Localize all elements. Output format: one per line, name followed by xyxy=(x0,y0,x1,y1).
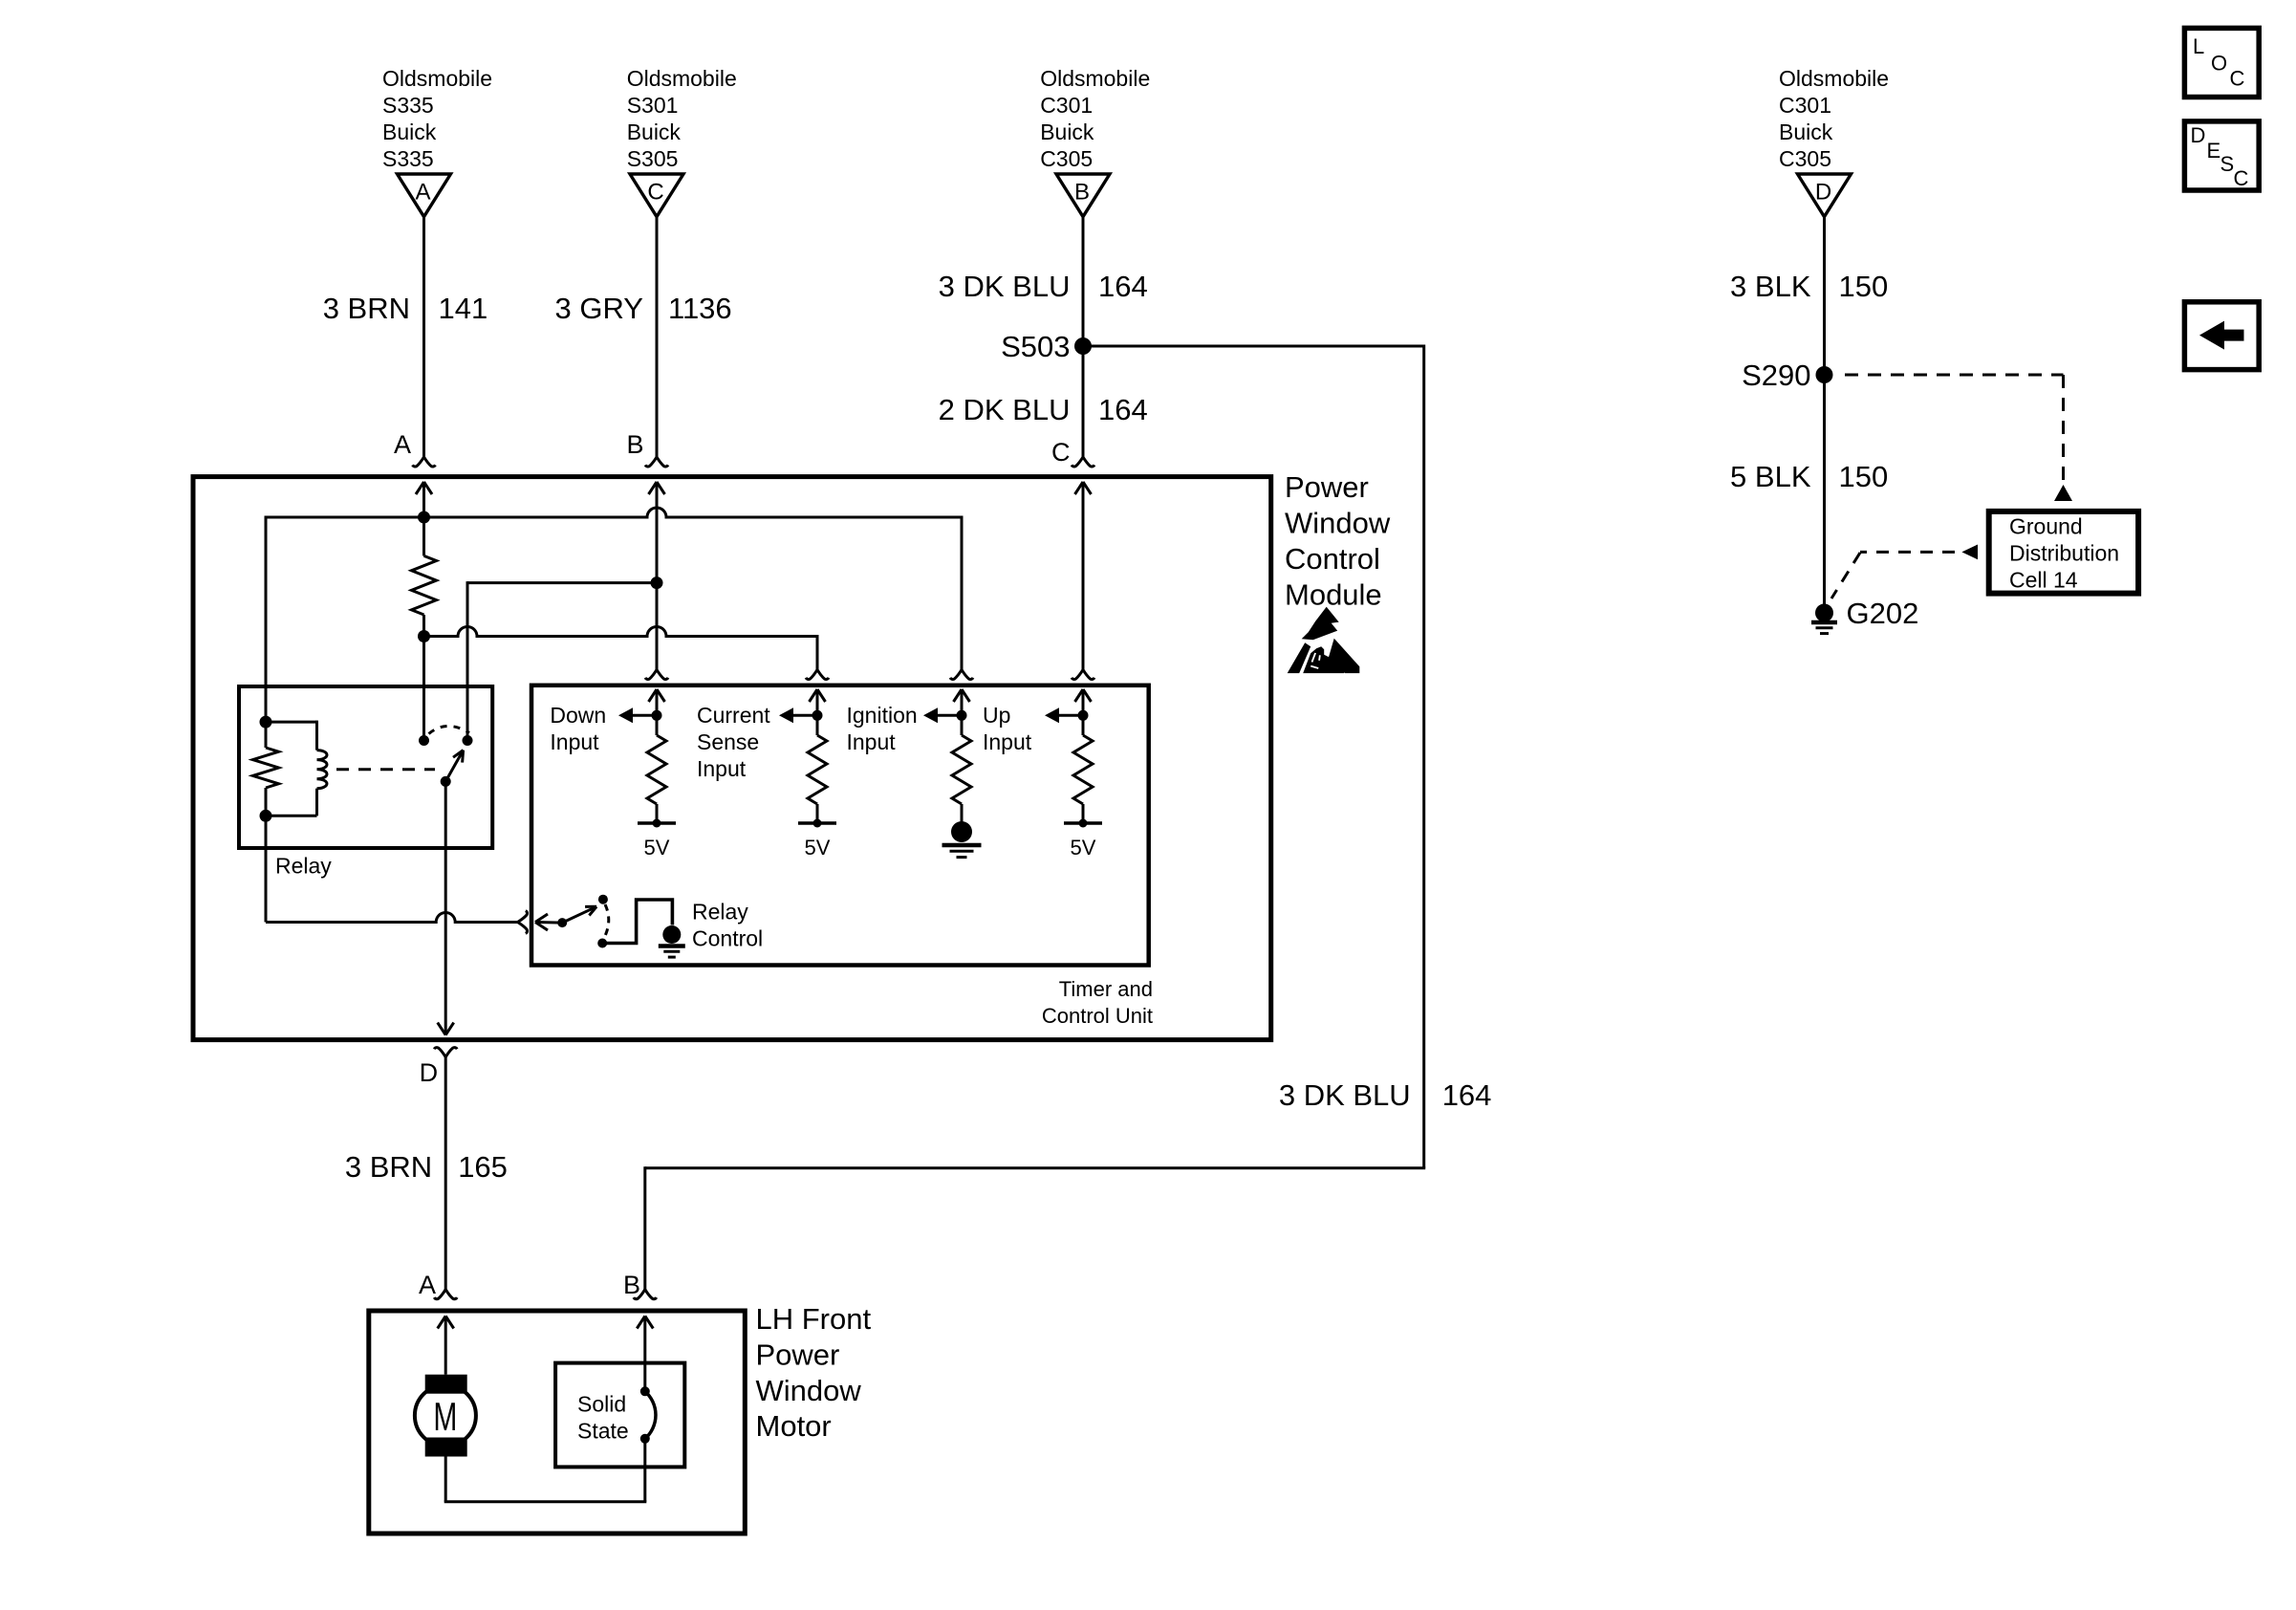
relay node coil top xyxy=(260,716,272,729)
svg-text:5V: 5V xyxy=(644,836,670,859)
module pin B male terminal arrow xyxy=(656,482,659,670)
motor M circle xyxy=(415,1385,476,1447)
dashed wire S290 to ground distribution xyxy=(1845,374,2064,377)
svg-text:C: C xyxy=(2230,67,2245,91)
wire node A lower to relay left contact xyxy=(422,637,425,741)
svg-text:C305: C305 xyxy=(1040,146,1093,171)
svg-text:S301: S301 xyxy=(627,93,679,118)
relay switch common pivot xyxy=(441,776,451,787)
svg-text:Relay: Relay xyxy=(275,853,332,878)
ground G202 symbol xyxy=(1811,620,1837,625)
relay coil to ground wire xyxy=(265,816,268,922)
svg-text:C: C xyxy=(1051,438,1071,467)
svg-text:D: D xyxy=(420,1058,439,1087)
svg-text:Window: Window xyxy=(756,1374,862,1407)
off-page connector triangle B xyxy=(1056,174,1110,217)
relay control lower contact dot xyxy=(597,939,607,948)
ignition input ground symbol xyxy=(942,843,982,848)
wire 3 BRN 141 (circuit A upper) xyxy=(422,217,425,457)
module pin C male terminal arrow xyxy=(1082,482,1085,670)
svg-text:Oldsmobile: Oldsmobile xyxy=(1779,66,1889,91)
relay suppression resistor xyxy=(253,748,279,788)
svg-text:Motor: Motor xyxy=(756,1409,832,1443)
svg-text:Oldsmobile: Oldsmobile xyxy=(1040,66,1150,91)
module pin C female connector xyxy=(1072,457,1083,467)
svg-text:G202: G202 xyxy=(1847,597,1919,630)
junction dot node A lower xyxy=(418,630,430,642)
svg-text:S290: S290 xyxy=(1742,359,1810,392)
timer relay-control female connector xyxy=(518,911,528,923)
svg-text:3 BRN: 3 BRN xyxy=(345,1150,432,1184)
timer pin up input xyxy=(1072,670,1083,680)
junction dot node A upper xyxy=(418,511,430,524)
junction dot node B xyxy=(651,577,663,589)
relay control ground dot xyxy=(662,925,681,944)
svg-text:Ground: Ground xyxy=(2009,513,2083,538)
module pin D male terminal arrow xyxy=(438,1023,446,1035)
relay control pivot dot xyxy=(557,918,567,927)
svg-text:Distribution: Distribution xyxy=(2009,540,2119,565)
svg-text:164: 164 xyxy=(1098,270,1148,303)
module pin A male terminal arrow xyxy=(422,482,425,517)
relay coil left wire xyxy=(265,686,268,722)
motor pin B male terminal arrow xyxy=(643,1316,646,1392)
svg-text:S503: S503 xyxy=(1001,330,1070,363)
relay switch fixed contact left (from node A) xyxy=(419,735,429,746)
svg-text:D: D xyxy=(2191,123,2206,147)
svg-text:3 DK BLU: 3 DK BLU xyxy=(1279,1078,1411,1112)
svg-text:Control Unit: Control Unit xyxy=(1042,1004,1153,1028)
motor pin A male terminal arrow xyxy=(444,1316,447,1375)
svg-text:Oldsmobile: Oldsmobile xyxy=(627,66,737,91)
svg-text:Ignition: Ignition xyxy=(847,703,918,728)
svg-text:M: M xyxy=(433,1394,457,1439)
svg-text:Input: Input xyxy=(847,729,897,754)
svg-text:5V: 5V xyxy=(1071,836,1096,859)
svg-text:164: 164 xyxy=(1442,1078,1492,1112)
timer and control unit box xyxy=(531,685,1149,966)
svg-text:Sense: Sense xyxy=(697,729,759,754)
svg-text:Input: Input xyxy=(697,756,747,781)
power window control module box xyxy=(193,477,1271,1040)
svg-text:Power: Power xyxy=(1285,470,1369,504)
module pin D female connector xyxy=(434,1048,445,1057)
wire ignition feed bus (node A to ignition input) xyxy=(266,508,962,517)
timer pin ignition input xyxy=(950,670,962,680)
up input 5V rail xyxy=(1064,821,1102,825)
svg-text:Cell 14: Cell 14 xyxy=(2009,567,2078,592)
svg-text:C301: C301 xyxy=(1779,93,1831,118)
relay coil top link xyxy=(266,721,317,724)
svg-text:5 BLK: 5 BLK xyxy=(1730,460,1811,493)
svg-text:LH Front: LH Front xyxy=(756,1302,872,1336)
LH front power window motor box xyxy=(369,1311,746,1534)
svg-text:C: C xyxy=(647,180,663,206)
LOC legend box xyxy=(2184,28,2259,97)
off-page connector triangle A xyxy=(398,174,451,217)
motor pin B female connector xyxy=(634,1290,645,1299)
svg-text:Module: Module xyxy=(1285,578,1382,612)
relay actuation dashed link xyxy=(336,768,435,771)
svg-text:State: State xyxy=(577,1418,629,1443)
module pin B female connector xyxy=(645,457,657,467)
arrowhead into ground distribution (up) xyxy=(2054,485,2072,501)
svg-text:150: 150 xyxy=(1839,270,1889,303)
down input 5V rail xyxy=(638,821,676,825)
current sense 5V rail xyxy=(798,821,836,825)
svg-text:Up: Up xyxy=(983,703,1010,728)
wire relay coil to timer relay-control pin xyxy=(266,913,518,923)
solid state upper contact dot xyxy=(640,1386,650,1396)
svg-text:3 DK BLU: 3 DK BLU xyxy=(939,270,1071,303)
svg-text:Buick: Buick xyxy=(382,120,437,144)
module pin A female connector xyxy=(413,457,424,467)
svg-text:1136: 1136 xyxy=(668,292,732,325)
ignition input ground dot xyxy=(961,804,964,824)
svg-text:3 GRY: 3 GRY xyxy=(555,292,643,325)
svg-text:Power: Power xyxy=(756,1338,840,1371)
svg-text:2 DK BLU: 2 DK BLU xyxy=(939,393,1071,426)
wire 3 BLK 150 xyxy=(1823,217,1826,375)
svg-text:Buick: Buick xyxy=(1040,120,1094,144)
arrowhead from ground distribution (left) xyxy=(1961,545,1978,560)
svg-text:S305: S305 xyxy=(627,146,679,171)
svg-text:165: 165 xyxy=(458,1150,508,1184)
off-page connector triangle C xyxy=(630,174,683,217)
ESD sensitive device symbol xyxy=(1288,607,1360,673)
svg-text:A: A xyxy=(419,1271,436,1299)
svg-text:Current: Current xyxy=(697,703,770,728)
relay coil xyxy=(317,751,327,789)
relay resistor bottom lead xyxy=(265,788,268,816)
wire relay common to pin D xyxy=(444,781,447,1034)
ground G202 dot xyxy=(1815,604,1833,622)
wire 3 DK BLU 164 from S503 to LH motor B xyxy=(1091,345,1424,348)
svg-text:A: A xyxy=(394,430,411,459)
svg-text:C301: C301 xyxy=(1040,93,1093,118)
wire resistor to node A lower xyxy=(422,615,425,637)
svg-text:Control: Control xyxy=(692,925,763,950)
relay control ground symbol xyxy=(659,944,685,948)
svg-text:D: D xyxy=(1815,180,1831,206)
svg-text:S: S xyxy=(2220,152,2235,176)
DESC legend box xyxy=(2184,121,2259,190)
solid state switch arc xyxy=(645,1391,656,1439)
motor internal wire M to B xyxy=(444,1457,447,1502)
off-page connector triangle D xyxy=(1798,174,1852,217)
relay throw dashed arc xyxy=(429,726,470,733)
motor M brush block bottom xyxy=(425,1438,467,1457)
timer pin current sense input xyxy=(806,670,817,680)
svg-text:3 BLK: 3 BLK xyxy=(1730,270,1811,303)
motor pin A female connector xyxy=(434,1290,445,1299)
module pin B arrowhead xyxy=(649,482,658,494)
relay control throw dashed arc xyxy=(604,904,609,938)
splice S503 xyxy=(1074,337,1092,355)
back arrow legend box xyxy=(2184,302,2259,370)
svg-text:Timer and: Timer and xyxy=(1059,977,1153,1001)
resistor on wire A inside module xyxy=(412,555,437,615)
solid state box xyxy=(555,1363,684,1468)
relay coil bottom link xyxy=(315,789,318,816)
svg-text:L: L xyxy=(2193,34,2204,58)
wire 3 DK BLU 164 (above S503) xyxy=(1082,217,1085,346)
solid state lower contact dot xyxy=(640,1434,650,1444)
svg-text:141: 141 xyxy=(439,292,488,325)
ground distribution cell box xyxy=(1989,511,2138,594)
wire 3 GRY 1136 xyxy=(656,217,659,457)
svg-text:Solid: Solid xyxy=(577,1391,626,1416)
svg-text:150: 150 xyxy=(1839,460,1889,493)
svg-text:O: O xyxy=(2211,51,2227,75)
svg-text:Relay: Relay xyxy=(692,899,748,924)
svg-text:S335: S335 xyxy=(382,146,434,171)
dashed wire ground distribution to G202 xyxy=(1860,551,1955,554)
relay node coil bottom xyxy=(260,810,272,822)
relay control staple wire xyxy=(602,900,672,944)
svg-text:B: B xyxy=(1074,180,1090,206)
motor M brush block top xyxy=(425,1375,467,1394)
svg-text:3 BRN: 3 BRN xyxy=(323,292,410,325)
relay resistor top lead xyxy=(265,722,268,748)
svg-text:C305: C305 xyxy=(1779,146,1831,171)
svg-text:164: 164 xyxy=(1098,393,1148,426)
svg-text:Down: Down xyxy=(550,703,606,728)
relay switch fixed contact right xyxy=(463,735,473,746)
svg-text:Control: Control xyxy=(1285,542,1380,576)
svg-text:B: B xyxy=(626,430,643,459)
svg-text:B: B xyxy=(623,1271,640,1299)
wire 3 BRN 165 xyxy=(444,1057,447,1290)
svg-text:Window: Window xyxy=(1285,507,1391,540)
svg-text:Input: Input xyxy=(550,729,599,754)
relay box xyxy=(239,686,492,848)
svg-text:Input: Input xyxy=(983,729,1032,754)
wire 5 BLK 150 xyxy=(1823,375,1826,604)
svg-text:C: C xyxy=(2234,166,2249,190)
svg-text:A: A xyxy=(415,180,430,206)
svg-text:Buick: Buick xyxy=(1779,120,1833,144)
relay control movable arm xyxy=(562,906,596,923)
wire relay contact to node B xyxy=(467,581,657,584)
svg-text:E: E xyxy=(2207,139,2221,163)
svg-text:Oldsmobile: Oldsmobile xyxy=(382,66,492,91)
relay control upper contact dot xyxy=(598,895,608,904)
relay control male terminal arrow xyxy=(536,921,562,925)
wire 2 DK BLU 164 (below S503) xyxy=(1082,346,1085,457)
wire node A upper to resistor xyxy=(422,517,425,555)
svg-text:S335: S335 xyxy=(382,93,434,118)
timer pin down input xyxy=(645,670,657,680)
splice S290 xyxy=(1816,366,1833,383)
relay movable contact arm xyxy=(445,751,463,782)
svg-text:Buick: Buick xyxy=(627,120,682,144)
wire node A lower to current sense input xyxy=(424,627,818,637)
svg-text:5V: 5V xyxy=(805,836,831,859)
